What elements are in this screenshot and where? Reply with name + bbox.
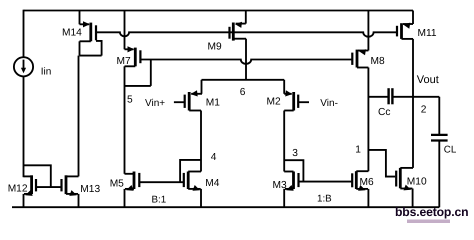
label Vin- bbox=[320, 98, 338, 109]
svg-text:M12: M12 bbox=[8, 184, 28, 195]
label node 1 bbox=[355, 145, 361, 156]
svg-text:B:1: B:1 bbox=[152, 194, 167, 205]
transistor M10 bbox=[396, 168, 413, 207]
wire M3-M6 gate line bbox=[299, 181, 353, 183]
wire rail to M7 source bbox=[124, 11, 126, 50]
svg-text:M10: M10 bbox=[407, 177, 427, 188]
transistor M14 bbox=[80, 11, 97, 56]
wire M4 gate-drain jog bbox=[180, 160, 201, 182]
label node 6 bbox=[240, 87, 246, 98]
svg-text:M6: M6 bbox=[360, 177, 374, 188]
wire VSS bottom rail bbox=[12, 206, 439, 208]
wire M14 gate-drain jog bbox=[80, 41, 102, 56]
label node 3 bbox=[292, 148, 298, 159]
wire Vout to CL bbox=[413, 97, 439, 135]
label Vout bbox=[417, 74, 439, 86]
label 1:B bbox=[317, 194, 332, 205]
label M11 bbox=[418, 28, 437, 39]
label Vin+ bbox=[145, 98, 165, 109]
transistor M3 bbox=[284, 172, 298, 208]
wire M3 gate-drain jog bbox=[284, 160, 303, 181]
svg-text:5: 5 bbox=[127, 94, 133, 105]
wire PMOS mirror gate line bbox=[96, 32, 397, 36]
transistor M12 bbox=[24, 175, 37, 207]
watermark second line clipped bbox=[407, 220, 450, 224]
label M6 bbox=[360, 177, 374, 188]
svg-text:M11: M11 bbox=[418, 28, 437, 39]
wire node 4 bbox=[200, 111, 202, 172]
label Iin bbox=[41, 66, 52, 77]
label M2 bbox=[267, 96, 281, 107]
svg-text:6: 6 bbox=[240, 87, 246, 98]
label M5 bbox=[110, 178, 124, 189]
wire node1 to Cc bbox=[368, 96, 388, 98]
wire Iin to M12 drain bbox=[23, 76, 25, 177]
svg-text:M3: M3 bbox=[273, 180, 287, 191]
wire node 3 bbox=[283, 111, 285, 172]
label node 4 bbox=[211, 152, 217, 163]
wire rail to M8 source bbox=[367, 11, 369, 51]
transistor M13 bbox=[62, 175, 79, 207]
label M12 bbox=[8, 184, 28, 195]
svg-text:CL: CL bbox=[444, 145, 457, 156]
transistor M8 bbox=[352, 49, 368, 67]
wire Vout node bbox=[412, 39, 414, 168]
transistor M2 bbox=[284, 80, 309, 111]
capacitor Cc bbox=[389, 88, 393, 104]
wire node 5 bbox=[124, 66, 126, 174]
wire M13 drain to M14 drain bbox=[78, 56, 80, 177]
label M8 bbox=[371, 56, 385, 67]
label M10 bbox=[407, 177, 427, 188]
svg-text:Iin: Iin bbox=[41, 66, 52, 77]
transistor M4 bbox=[184, 172, 201, 208]
svg-text:M13: M13 bbox=[80, 184, 100, 195]
wire node1 to M10 gate bbox=[368, 150, 395, 177]
label node 5 bbox=[127, 94, 133, 105]
wire M9 drain to node 6 bbox=[245, 39, 247, 80]
wire M7 gate-drain jog bbox=[125, 60, 151, 86]
label M1 bbox=[206, 98, 220, 109]
svg-text:M2: M2 bbox=[267, 96, 281, 107]
label B:1 bbox=[152, 194, 167, 205]
label M4 bbox=[205, 178, 219, 189]
svg-text:4: 4 bbox=[211, 152, 217, 163]
label CL bbox=[444, 145, 457, 156]
wire M12-M13 gate line bbox=[36, 186, 62, 188]
svg-text:M1: M1 bbox=[206, 98, 220, 109]
svg-text:1: 1 bbox=[355, 145, 361, 156]
label M3 bbox=[273, 180, 287, 191]
capacitor CL bbox=[431, 135, 448, 141]
wire M5-M4 gate line bbox=[139, 181, 184, 183]
watermark bbs.eetop.cn bbox=[395, 205, 468, 219]
label Cc bbox=[378, 107, 390, 118]
svg-text:3: 3 bbox=[292, 148, 298, 159]
label M7 bbox=[117, 56, 131, 67]
transistor M5 bbox=[125, 172, 140, 208]
wire Cc to Vout bbox=[392, 96, 413, 98]
transistor M7 bbox=[125, 46, 141, 66]
wire M12 diode jog bbox=[24, 165, 51, 187]
svg-text:Vin-: Vin- bbox=[320, 98, 338, 109]
label M13 bbox=[80, 184, 100, 195]
svg-text:M5: M5 bbox=[110, 178, 124, 189]
svg-text:M8: M8 bbox=[371, 56, 385, 67]
svg-text:M9: M9 bbox=[208, 41, 222, 52]
svg-text:M7: M7 bbox=[117, 56, 131, 67]
svg-text:Cc: Cc bbox=[378, 107, 390, 118]
wire node 6 bus bbox=[202, 79, 285, 81]
label M9 bbox=[208, 41, 222, 52]
wire CL to ground rail bbox=[438, 141, 440, 208]
transistor M6 bbox=[352, 171, 368, 207]
wire VDD top rail bbox=[24, 10, 414, 12]
transistor M1 bbox=[174, 80, 202, 111]
transistor M11 bbox=[397, 11, 413, 39]
svg-text:bbs.eetop.cn: bbs.eetop.cn bbox=[395, 205, 468, 219]
svg-text:M14: M14 bbox=[62, 28, 82, 39]
svg-text:Vout: Vout bbox=[417, 74, 439, 86]
wire node 1 bbox=[367, 68, 369, 172]
svg-text:Vin+: Vin+ bbox=[145, 98, 165, 109]
wire rail to Iin bbox=[23, 10, 25, 58]
svg-text:1:B: 1:B bbox=[317, 194, 332, 205]
transistor M9 bbox=[230, 11, 247, 41]
svg-text:M4: M4 bbox=[205, 178, 219, 189]
label node 2 bbox=[421, 104, 427, 115]
wire M7-M8 gate line bbox=[140, 60, 352, 64]
label M14 bbox=[62, 28, 82, 39]
current source Iin bbox=[14, 57, 33, 76]
svg-text:2: 2 bbox=[421, 104, 427, 115]
